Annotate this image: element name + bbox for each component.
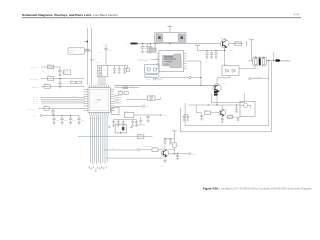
- junction on net V5A: [86, 41, 88, 43]
- U0451 internal label rows: [164, 56, 173, 57]
- svg-text:R0461: R0461: [235, 40, 239, 42]
- cross mark left: [108, 126, 110, 128]
- resistor R0442 vertical: [126, 68, 129, 72]
- svg-text:U0403: U0403: [149, 46, 153, 48]
- ground Q0405: [163, 161, 166, 163]
- svg-text:SW_B+_SENSE: SW_B+_SENSE: [253, 77, 262, 79]
- audio IC U0451 outer box: [159, 51, 184, 72]
- junction dots reset rail: [208, 104, 209, 105]
- crystal element 2: [99, 70, 102, 72]
- RESET net flag out: [189, 153, 191, 155]
- U0451 left pins: [157, 54, 160, 69]
- svg-text:EX: EX: [94, 83, 96, 85]
- svg-text:R0404: R0404: [177, 144, 181, 146]
- resistor R0409: [44, 107, 49, 111]
- ground row1 cap: [58, 75, 61, 77]
- svg-text:U0404: U0404: [112, 110, 116, 112]
- svg-text:16MHz: 16MHz: [72, 96, 76, 98]
- capacitor C0464: [205, 51, 208, 60]
- junction output: [174, 153, 175, 154]
- resistor R0461: [235, 42, 242, 45]
- caps pair bottom circuit feed: [164, 137, 175, 139]
- svg-text:PB0: PB0: [106, 166, 108, 169]
- capacitor C0444: [118, 66, 121, 74]
- resistor glyph R0414: [86, 49, 89, 51]
- svg-text:L0401: L0401: [138, 133, 142, 135]
- wire vertical x236.4: [235, 105, 237, 108]
- wire B+ rail: [136, 43, 220, 45]
- resistor R0413 box: [68, 48, 85, 54]
- wire filter bottom stub: [239, 66, 255, 69]
- U0451 gray body: [163, 54, 182, 68]
- svg-text:Figure 4-26. Low Band (29.7-4: Figure 4-26. Low Band (29.7-42/38-50 MHz…: [203, 187, 312, 191]
- ribbon net labels rotated: [88, 166, 108, 172]
- wire row y108: [38, 108, 85, 110]
- U0406 bottom pins: [90, 112, 108, 115]
- junction row2: [59, 78, 60, 79]
- capacitor C0418: [77, 116, 80, 125]
- svg-text:U0462: U0462: [178, 32, 182, 34]
- enclosure outer wire: [181, 61, 272, 132]
- BUSY net arrow: [160, 114, 163, 116]
- filter FL0461: [253, 57, 266, 66]
- U0406 top pins: [90, 85, 108, 88]
- svg-text:CR0461: CR0461: [224, 64, 229, 66]
- reset rail: [189, 104, 241, 106]
- transistor Q0464: [213, 84, 221, 92]
- B+ net flag: [131, 43, 137, 45]
- svg-text:PTT: PTT: [33, 115, 36, 117]
- svg-text:U0461: U0461: [156, 32, 160, 34]
- svg-text:BUS_RX: BUS_RX: [163, 115, 168, 117]
- svg-text:MB: MB: [90, 82, 92, 84]
- transistor Q0465: [219, 109, 226, 116]
- wire vertical net V5B top-left: [90, 28, 92, 85]
- svg-text:WD_STROBE: WD_STROBE: [144, 146, 152, 148]
- svg-text:SPI_CS: SPI_CS: [33, 101, 37, 103]
- test point circle TP0461: [240, 104, 244, 106]
- wire 5V cap feed row: [198, 50, 225, 52]
- svg-text:HC11F1: HC11F1: [94, 102, 99, 104]
- svg-text:R0414: R0414: [86, 48, 90, 50]
- wire bus1: [41, 96, 85, 98]
- svg-text:R0406: R0406: [64, 71, 68, 73]
- svg-text:SPI_DIO: SPI_DIO: [33, 99, 38, 101]
- svg-text:9.6V: 9.6V: [248, 38, 251, 40]
- voltage regulator module box U0461: [155, 33, 186, 43]
- svg-text:C0415: C0415: [56, 120, 60, 122]
- wire Q0464 emitter down: [216, 92, 218, 105]
- wire flag left: [161, 77, 189, 79]
- svg-text:R0471: R0471: [205, 110, 209, 112]
- svg-text:0402 10K: 0402 10K: [69, 52, 74, 54]
- speaker jack box: [115, 124, 126, 133]
- svg-text:Q0461: Q0461: [220, 38, 224, 40]
- diode box D0401: [148, 96, 156, 100]
- inline filter box on y136.7: [138, 135, 144, 139]
- capacitor C0405: [164, 138, 167, 144]
- wire y125 stub: [135, 124, 146, 126]
- svg-text:U0402: U0402: [145, 66, 149, 68]
- AUDIO PA net flag circle: [189, 76, 191, 78]
- svg-text:Q0405: Q0405: [160, 166, 164, 168]
- SW B+ SENSE net flag: [249, 77, 251, 79]
- svg-text:Y0401: Y0401: [103, 68, 107, 70]
- svg-text:100: 100: [42, 71, 44, 73]
- RESET IN net flag: [137, 149, 139, 151]
- diode glyph 2: [232, 69, 235, 72]
- enclosure inner wire: [185, 61, 269, 126]
- resistor box R0406 gray: [64, 70, 71, 75]
- jack dark insert: [122, 127, 125, 130]
- wire bus4: [41, 102, 85, 104]
- svg-text:Q0464: Q0464: [223, 82, 227, 84]
- U0406 right pins: [110, 90, 114, 111]
- pin stub wires right of QFP: [114, 95, 119, 103]
- wire +5V resistor to collector rail: [169, 147, 175, 149]
- transistor Q0405: [161, 149, 169, 157]
- svg-text:.1uF: .1uF: [205, 61, 208, 63]
- 9.6V supply tee: [249, 39, 254, 41]
- capacitor C0406: [169, 138, 172, 144]
- wire flag right: [191, 77, 201, 79]
- wire E0461 vertical: [273, 53, 275, 60]
- svg-text:RS: RS: [105, 83, 107, 85]
- U0451 right pins: [184, 54, 187, 69]
- wire flag to resistor: [140, 149, 152, 151]
- wire vertical x174.4 to output: [173, 150, 175, 154]
- supply tee end: [246, 41, 248, 46]
- svg-text:R0413 NU: R0413 NU: [69, 50, 75, 52]
- ribbon branch wire y158.8: [106, 157, 163, 159]
- capacitor C0426 right: [139, 117, 142, 124]
- capacitor C0474: [186, 115, 189, 122]
- capacitor C0463 on rail: [149, 44, 153, 54]
- wire +5V down: [173, 131, 175, 143]
- capacitor C0466: [214, 51, 217, 60]
- wire stub at junction: [84, 41, 88, 43]
- capacitor C0417: [69, 116, 72, 125]
- wire Q0405 emitter down: [164, 157, 166, 161]
- capacitor C0473: [183, 115, 186, 122]
- regulator left element gray: [156, 34, 163, 41]
- wire cap feed row: [114, 119, 137, 121]
- resistor R0405 row1: [48, 65, 54, 69]
- wire vertical net V5A top-left: [86, 28, 88, 85]
- svg-text:R0403: R0403: [152, 146, 156, 148]
- PTT net flag circle: [40, 114, 42, 116]
- svg-text:C0418: C0418: [81, 120, 85, 122]
- svg-text:Q0465: Q0465: [225, 108, 229, 110]
- wire Q0461 collector right: [229, 43, 244, 45]
- svg-text:C0453: C0453: [96, 62, 100, 64]
- wire resistor to Q0405: [158, 149, 161, 151]
- crystal oscillator Y0401 box: [98, 66, 108, 77]
- wire B+ to U0451: [154, 44, 156, 51]
- wire base to Q0465: [211, 112, 220, 114]
- crystal element 1: [99, 67, 102, 69]
- capacitor C0445: [123, 66, 126, 74]
- junction cap feed: [206, 50, 207, 51]
- wire sense flag: [251, 78, 269, 80]
- ribbon wires from U0406 bottom pins: [90, 116, 107, 165]
- capacitor C0412 row1: [59, 67, 61, 71]
- wire U0451 net down right: [200, 61, 202, 85]
- capacitor C0407 on output: [176, 154, 179, 160]
- capacitor C0471: [200, 113, 203, 120]
- wire 9.6V down to filter: [251, 40, 253, 61]
- capacitor C0416: [60, 116, 63, 125]
- svg-text:5V: 5V: [80, 41, 82, 43]
- svg-text:C0427: C0427: [137, 92, 139, 96]
- resistor R0404 vertical: [173, 143, 177, 147]
- svg-text:R0407: R0407: [48, 75, 52, 77]
- junction on jack bottom: [120, 132, 121, 133]
- capacitor C0443: [113, 66, 116, 74]
- svg-text:VSTBY: VSTBY: [90, 22, 92, 26]
- svg-text:5105469V44: 5105469V44: [146, 76, 153, 78]
- dual diode box CR0461: [222, 66, 239, 76]
- wire Q0465 right branch: [226, 116, 241, 118]
- svg-text:SPI_INT: SPI_INT: [33, 103, 38, 105]
- svg-text:E0461: E0461: [272, 52, 276, 54]
- resistor R0421 inline: [123, 87, 128, 89]
- caps under U0404 row: [112, 120, 115, 127]
- junction: [200, 77, 201, 78]
- diode element 2 in U0402: [154, 68, 157, 71]
- dark component U0463 stack: [214, 91, 218, 93]
- resistor pack above QFP: [77, 81, 82, 83]
- svg-text:C0462: C0462: [108, 50, 112, 52]
- capacitor C0415: [52, 116, 55, 125]
- svg-text:100K: 100K: [64, 73, 67, 75]
- svg-text:C0417: C0417: [72, 120, 76, 122]
- resistor R0408 row3: [44, 85, 50, 89]
- capacitor C0462b on rail: [146, 44, 150, 54]
- wire CR box to Q0464: [217, 76, 230, 84]
- svg-text:R0411: R0411: [99, 52, 103, 54]
- wire +5V down: [169, 27, 171, 33]
- svg-text:R0422: R0422: [118, 90, 122, 92]
- svg-text:K0461: K0461: [256, 67, 260, 69]
- wire D0401 right: [155, 99, 160, 101]
- wire Q0461 emitter down: [224, 48, 226, 66]
- svg-text:FL0461: FL0461: [253, 55, 257, 57]
- wire osc row right: [108, 65, 128, 67]
- svg-text:R0462: R0462: [230, 50, 234, 52]
- small part U0403 top-left of DSP: [149, 48, 156, 52]
- resistor R0403: [152, 148, 158, 152]
- header rule: [22, 17, 301, 19]
- diode glyph 1: [226, 69, 229, 72]
- capacitor C0419: [146, 115, 149, 123]
- resistor cluster labels: [118, 92, 122, 95]
- EEPROM U0404 box: [112, 107, 119, 114]
- wire row1: [41, 66, 60, 68]
- wire reset rail left drop: [196, 105, 201, 113]
- U0402 part number label box: [145, 75, 160, 78]
- junction B+: [136, 43, 138, 45]
- svg-text:9.6V SW B+: 9.6V SW B+: [281, 60, 290, 62]
- svg-text:SPI_CLK: SPI_CLK: [33, 97, 38, 99]
- wire RX audio to U0451: [151, 58, 159, 60]
- svg-text:Schematic Diagrams, Overlays,: Schematic Diagrams, Overlays, and Parts …: [22, 13, 118, 17]
- svg-text:VH: VH: [97, 83, 99, 85]
- svg-text:VCC5: VCC5: [86, 23, 88, 27]
- wire filter left: [248, 60, 253, 62]
- wires Y0401 to QFP top pins: [99, 77, 105, 85]
- wire row2: [41, 78, 85, 80]
- audio option box U0402: [145, 65, 160, 74]
- wire regulator to rail: [169, 43, 171, 44]
- long rail from U0406 to Q0464: [114, 84, 217, 86]
- wire from R0413 to net: [85, 50, 92, 52]
- wire Q0465 collector up: [221, 105, 223, 109]
- svg-text:C0452: C0452: [91, 60, 95, 62]
- wire bus3: [41, 100, 85, 102]
- diode element 1 in U0402: [148, 68, 151, 71]
- ribbon branch wire y150: [104, 149, 138, 151]
- resistor R0471 base: [205, 111, 211, 114]
- junction dots PTT row: [53, 115, 54, 116]
- ground row2 cap: [58, 86, 61, 88]
- capacitor C0414: [52, 109, 54, 111]
- wire row3: [41, 86, 85, 88]
- wire flag to box: [156, 78, 163, 80]
- svg-text:RESET_CTL: RESET_CTL: [32, 86, 39, 88]
- wire Q0465 emitter down + cap: [221, 116, 224, 123]
- svg-text:INT_SPKR: INT_SPKR: [145, 79, 151, 81]
- capacitor C0462 near B+: [105, 44, 107, 49]
- 9.6V SW B+ black net arrow: [276, 59, 281, 61]
- capacitor C0413 row2: [59, 79, 61, 83]
- wire U0451 output right: [186, 60, 201, 62]
- U0406 top pin labels: [87, 82, 108, 84]
- BUS+ net flag: [114, 105, 142, 107]
- capacitor C0472: [237, 117, 240, 121]
- resistor R0472: [228, 115, 233, 118]
- svg-text:4-49: 4-49: [294, 12, 300, 16]
- svg-text:U0405: U0405: [125, 111, 129, 113]
- svg-text:R0405: R0405: [48, 64, 52, 66]
- wire caps feed: [184, 114, 188, 116]
- crystal element 3: [99, 73, 102, 75]
- svg-text:C0413: C0413: [62, 83, 66, 85]
- svg-text:KID: KID: [112, 148, 114, 150]
- svg-text:BUS+: BUS+: [146, 106, 149, 108]
- svg-text:R0409: R0409: [44, 105, 48, 107]
- wire Q0461 base top: [224, 38, 226, 40]
- box around reset circuit (left edge): [211, 94, 244, 103]
- svg-text:SW_B+_CNTL: SW_B+_CNTL: [30, 78, 38, 80]
- wire pin row y87.7: [114, 87, 139, 89]
- cross mark right: [130, 126, 132, 128]
- wire Q0405 output right: [169, 153, 189, 155]
- svg-text:U0406: U0406: [97, 100, 102, 102]
- wire Q0405 collector top: [164, 146, 166, 149]
- resistor R0407 row2: [48, 77, 54, 81]
- capacitor C0461 on rail: [141, 44, 145, 54]
- test point box: [240, 101, 255, 116]
- microprocessor U0406 QFP body: [88, 88, 110, 113]
- transistor Q0461: [220, 39, 229, 48]
- capacitor C0465: [210, 51, 213, 60]
- wire option row: [134, 114, 160, 116]
- wire PTT row: [42, 115, 79, 117]
- wire QFP pin to D0401: [126, 99, 148, 101]
- svg-text:UNSW_B+_CTL: UNSW_B+_CTL: [30, 67, 39, 69]
- svg-text:RESET: RESET: [192, 154, 196, 156]
- junctions on B+ rail: [142, 43, 143, 44]
- regulator right element gray: [178, 34, 185, 41]
- wire filter right to arrow: [266, 60, 275, 62]
- U0406 left pins: [84, 90, 88, 111]
- svg-text:R0408: R0408: [44, 83, 48, 85]
- svg-text:C0416: C0416: [64, 120, 68, 122]
- junction filter out: [268, 60, 269, 61]
- wire bus2: [41, 98, 85, 100]
- svg-text:R0472: R0472: [228, 114, 232, 116]
- wire y136.7 row: [78, 136, 153, 138]
- option box pair: [125, 112, 134, 117]
- svg-text:U0451: U0451: [165, 64, 170, 66]
- svg-text:R0421: R0421: [130, 86, 134, 88]
